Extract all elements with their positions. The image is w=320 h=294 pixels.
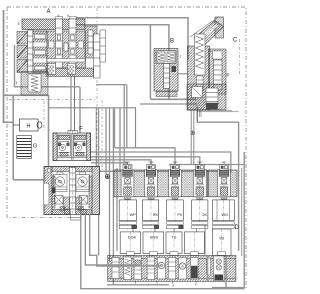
svg-text:VB: VB bbox=[219, 237, 225, 241]
manifold ch4 bbox=[147, 257, 155, 280]
region boundary dashed A/F bbox=[96, 8, 98, 172]
E wall fitting dark bbox=[52, 188, 56, 194]
small digit labels bbox=[58, 14, 212, 59]
pipe drain low bbox=[107, 284, 169, 286]
B spring box left bbox=[157, 52, 165, 62]
C spring slot bbox=[195, 34, 206, 75]
pipe bank drop d bbox=[116, 168, 118, 251]
solenoid cartridge x151.0 bbox=[145, 162, 158, 229]
pipe bundle4 bbox=[91, 160, 151, 173]
valve block C bbox=[187, 17, 226, 111]
pipe E drain 3 bbox=[81, 214, 245, 289]
svg-text:G: G bbox=[33, 144, 37, 150]
pipe box drop WP bbox=[132, 226, 134, 252]
pipe drop x120 bbox=[119, 108, 121, 170]
valve BNS bbox=[143, 232, 164, 254]
manifold ch8 dark bbox=[191, 258, 199, 280]
solenoid rail right bbox=[209, 170, 238, 197]
pipe bundle2 bbox=[73, 152, 231, 173]
E rotor left bbox=[54, 172, 68, 192]
pipe box drop RK bbox=[154, 226, 156, 252]
svg-text:WP: WP bbox=[130, 213, 137, 217]
A regulator block 1 bbox=[21, 72, 48, 96]
pipe drop to B left bbox=[149, 25, 151, 100]
A spool 2 bbox=[69, 19, 76, 68]
A far right strip bbox=[100, 30, 106, 62]
pipe box drop 2K bbox=[196, 226, 198, 252]
A spool 1 bbox=[56, 19, 63, 68]
manifold ch10 cartridge bbox=[214, 256, 225, 281]
row1 axes bbox=[128, 200, 224, 231]
E center spool bbox=[70, 168, 76, 215]
pipe A to C top bbox=[70, 18, 188, 60]
manifold ch3 bbox=[134, 257, 142, 280]
pipe box drop PK bbox=[173, 226, 175, 252]
svg-text:4: 4 bbox=[17, 22, 19, 26]
C top lever arm bbox=[194, 21, 224, 47]
A mid white pockets bbox=[49, 41, 55, 48]
valve 2K bbox=[192, 200, 208, 221]
C mid hatch right bbox=[209, 49, 227, 94]
valve row2 no4 bbox=[185, 232, 205, 254]
pipe thin pair bbox=[95, 108, 97, 167]
manifold ch1 bbox=[112, 258, 119, 279]
pipe A down to F bbox=[71, 76, 75, 133]
pipe to pump E bbox=[13, 179, 53, 181]
region boundary dashed P bbox=[239, 39, 241, 75]
pipe left supply vertical bbox=[3, 10, 5, 123]
A bottom bar bbox=[47, 68, 94, 77]
pipe bundle1 bbox=[115, 148, 176, 173]
E bracket bbox=[44, 183, 50, 205]
A spring 1 bbox=[48, 64, 56, 76]
A body bbox=[47, 31, 86, 68]
manifold ch9 small slot bbox=[207, 258, 211, 275]
pipe A supply to F bbox=[79, 87, 81, 133]
solenoid cartridge x127.5 bbox=[121, 162, 134, 229]
pipe mid h104 bbox=[140, 103, 198, 105]
A left channel bbox=[28, 30, 34, 73]
row2 axes bbox=[130, 229, 221, 256]
pipe E drain 1 bbox=[85, 214, 140, 265]
pipe A right down bbox=[96, 84, 127, 86]
svg-text:H: H bbox=[27, 123, 31, 129]
F bottom strip bbox=[57, 157, 87, 159]
E rotor right bbox=[76, 172, 90, 192]
svg-text:9: 9 bbox=[67, 14, 69, 18]
valve block B bbox=[154, 49, 188, 97]
valve PK bbox=[167, 200, 184, 221]
pipe right edge long bbox=[212, 152, 244, 288]
svg-text:9: 9 bbox=[58, 14, 60, 18]
svg-text:DGK: DGK bbox=[128, 236, 137, 240]
A square piston 1 bbox=[17, 32, 28, 45]
frame border dash-dot bbox=[7, 7, 246, 290]
B spool slot bbox=[164, 64, 170, 89]
link lines under C bbox=[197, 110, 239, 112]
pump block E bbox=[44, 167, 100, 222]
valve boxes row 1 bbox=[119, 200, 234, 221]
svg-text:B: B bbox=[170, 39, 174, 45]
manifold tick labels bbox=[148, 283, 197, 288]
solenoid rail main bbox=[114, 170, 208, 197]
F cartridge right bbox=[74, 135, 87, 156]
C base bbox=[187, 84, 226, 110]
valve WG bbox=[212, 200, 234, 221]
A square piston 2 bbox=[17, 46, 28, 59]
region boundary dashed F left bbox=[43, 101, 45, 133]
svg-text:F: F bbox=[79, 127, 83, 133]
svg-text:PK: PK bbox=[177, 213, 183, 217]
pipe bundle7 right bbox=[169, 164, 244, 166]
pipe A to B top bbox=[73, 22, 169, 99]
A top band bbox=[22, 19, 85, 30]
B spring box right bbox=[167, 52, 175, 62]
pipe under C bbox=[197, 106, 238, 251]
cooler G bbox=[17, 136, 32, 159]
valve block A bbox=[15, 17, 106, 96]
svg-text:WG: WG bbox=[221, 213, 228, 217]
pipe main horizontal bbox=[4, 94, 49, 96]
port bars under row 1 bbox=[119, 222, 234, 229]
manifold ch6 bbox=[168, 258, 176, 280]
B side dark detail bbox=[172, 66, 177, 72]
region boundary dashed bbox=[9, 99, 97, 101]
pipe bundle5 bbox=[91, 163, 127, 173]
pipe C down pair bbox=[191, 110, 194, 164]
pipe bank drop c2 bbox=[112, 108, 114, 285]
svg-text:6: 6 bbox=[209, 49, 211, 53]
valve WP bbox=[119, 200, 136, 221]
pipe F top link bbox=[114, 108, 116, 148]
svg-text:BNS: BNS bbox=[150, 236, 158, 240]
A spring 2 bbox=[68, 64, 76, 76]
E lower boxes bbox=[55, 196, 64, 205]
F cartridge left bbox=[58, 135, 71, 156]
svg-text:P: P bbox=[226, 73, 229, 78]
pipe bundle3 bbox=[75, 157, 200, 173]
A spool shaft left bbox=[33, 31, 47, 73]
manifold ch5 circle bbox=[158, 258, 166, 280]
svg-text:TS: TS bbox=[172, 236, 177, 240]
pipe manifold right riser bbox=[225, 256, 227, 289]
B bottom bar bbox=[156, 92, 177, 97]
valve DGK bbox=[120, 232, 140, 254]
svg-text:C: C bbox=[233, 38, 238, 44]
solenoid cartridge x224.0 bbox=[218, 162, 231, 229]
pipe H riser bbox=[13, 124, 19, 126]
E top small circle bbox=[47, 169, 51, 173]
pipe main2 horizontal bbox=[150, 98, 196, 100]
svg-text:A: A bbox=[46, 9, 50, 15]
svg-text:A: A bbox=[172, 284, 174, 288]
E bottom tail bbox=[65, 210, 71, 215]
manifold ticks bbox=[135, 281, 196, 283]
C base dark plug bbox=[207, 103, 218, 109]
pipe drop x124 bbox=[123, 85, 125, 172]
valve boxes row 2 bbox=[120, 229, 231, 256]
A right column bbox=[94, 34, 101, 78]
svg-text:1: 1 bbox=[15, 81, 17, 85]
pipe bank drop c bbox=[109, 108, 111, 262]
pipe E drain 2 bbox=[90, 214, 160, 266]
manifold block bbox=[108, 252, 236, 284]
pipe drop x126 bbox=[126, 85, 128, 148]
manifold ch7 circle bbox=[179, 258, 187, 280]
pipe bank drop b bbox=[105, 108, 107, 175]
node circle C drain bbox=[191, 131, 195, 135]
solenoid cartridge x199.8 bbox=[193, 162, 206, 229]
solenoid cartridge x175.0 bbox=[169, 162, 182, 229]
pipe bank drop a bbox=[98, 108, 100, 256]
manifold top tabs bbox=[126, 252, 225, 256]
valve unit F bbox=[53, 131, 91, 161]
F center divider bbox=[72, 134, 74, 160]
valve VB bbox=[213, 229, 232, 256]
A right extension bbox=[85, 26, 97, 58]
pipe left elbow bbox=[4, 121, 14, 123]
C main body bbox=[188, 46, 210, 110]
pipe manifold cross bbox=[207, 256, 209, 282]
A square piston 3 bbox=[17, 60, 28, 73]
svg-text:RK: RK bbox=[153, 213, 159, 217]
region boundary dashed F right bbox=[101, 100, 103, 172]
node port left bbox=[105, 175, 109, 179]
svg-text:2K: 2K bbox=[202, 213, 207, 217]
C top lever column bbox=[215, 17, 224, 38]
link line mid bbox=[49, 108, 136, 148]
valve RK bbox=[143, 200, 159, 221]
labels letters bbox=[46, 9, 239, 231]
pipe bundle6 bbox=[100, 170, 225, 172]
valve TS bbox=[166, 232, 182, 254]
E hatch mids bbox=[52, 176, 55, 208]
manifold ch2 spring bbox=[124, 257, 132, 280]
D region border bbox=[241, 168, 243, 256]
svg-text:7: 7 bbox=[180, 55, 182, 59]
B right stub bbox=[178, 73, 188, 75]
A feed pipe left bbox=[15, 45, 81, 87]
pipe F feed vertical bbox=[48, 95, 50, 168]
F cap nub bbox=[68, 131, 78, 134]
C inner slot lower bbox=[197, 76, 204, 91]
C base stubs bbox=[197, 110, 201, 122]
reservoir H bbox=[20, 119, 43, 131]
pipe gap drop bbox=[204, 226, 206, 256]
pipe second vertical bbox=[12, 95, 14, 180]
svg-text:D: D bbox=[235, 225, 240, 231]
E lower hatch strip bbox=[64, 197, 70, 209]
